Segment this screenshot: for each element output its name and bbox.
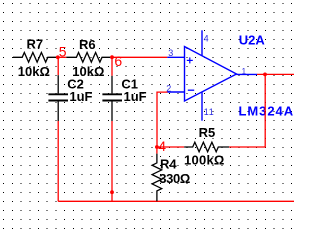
resistor R4 (152, 154, 162, 202)
svg-text:10kΩ: 10kΩ (18, 64, 50, 79)
svg-text:6: 6 (114, 53, 122, 69)
svg-text:1uF: 1uF (124, 89, 147, 104)
svg-text:3: 3 (168, 48, 173, 58)
svg-text:330Ω: 330Ω (159, 171, 190, 186)
svg-text:4: 4 (204, 34, 209, 44)
svg-text:R5: R5 (199, 125, 216, 140)
wire node4 down to R4 (156, 147, 158, 154)
wire node5 down to C2 (57, 57, 59, 75)
svg-text:4: 4 (158, 138, 166, 154)
wire opamp -input to node 4 (157, 92, 168, 147)
node 6 junction dot (110, 55, 114, 59)
resistor R5 (184, 142, 229, 152)
svg-text:R4: R4 (160, 157, 177, 172)
output junction dot (263, 73, 267, 77)
svg-text:100kΩ: 100kΩ (184, 152, 225, 167)
wire node5 to R6 (58, 56, 67, 58)
svg-text:1: 1 (242, 67, 247, 76)
resistor R6 (66, 53, 110, 63)
wire C1 down to ground bus (111, 121, 113, 201)
wire output down to feedback row (229, 74, 265, 147)
node 5 junction dot (56, 55, 60, 59)
wire node4 to R5 (157, 146, 184, 148)
capacitor C1 (102, 76, 122, 121)
svg-text:R7: R7 (27, 37, 44, 52)
svg-text:U2A: U2A (239, 33, 266, 48)
ground bus wire (58, 200, 294, 202)
wire node6 down to C1 (111, 57, 113, 76)
svg-text:R6: R6 (79, 37, 96, 52)
resistor R7 (13, 53, 56, 63)
wire node6 to opamp +input (112, 56, 167, 58)
node 4 junction dot (155, 145, 159, 149)
wire C2 down to ground bus (57, 121, 59, 201)
svg-text:11: 11 (204, 107, 215, 117)
svg-text:LM324AD: LM324AD (239, 104, 295, 119)
junction dot C1 to bus (110, 190, 114, 194)
capacitor C2 (48, 75, 68, 121)
svg-text:1uF: 1uF (69, 89, 92, 104)
wire opamp output to right edge (257, 73, 294, 75)
op-amp U2A (167, 30, 257, 120)
